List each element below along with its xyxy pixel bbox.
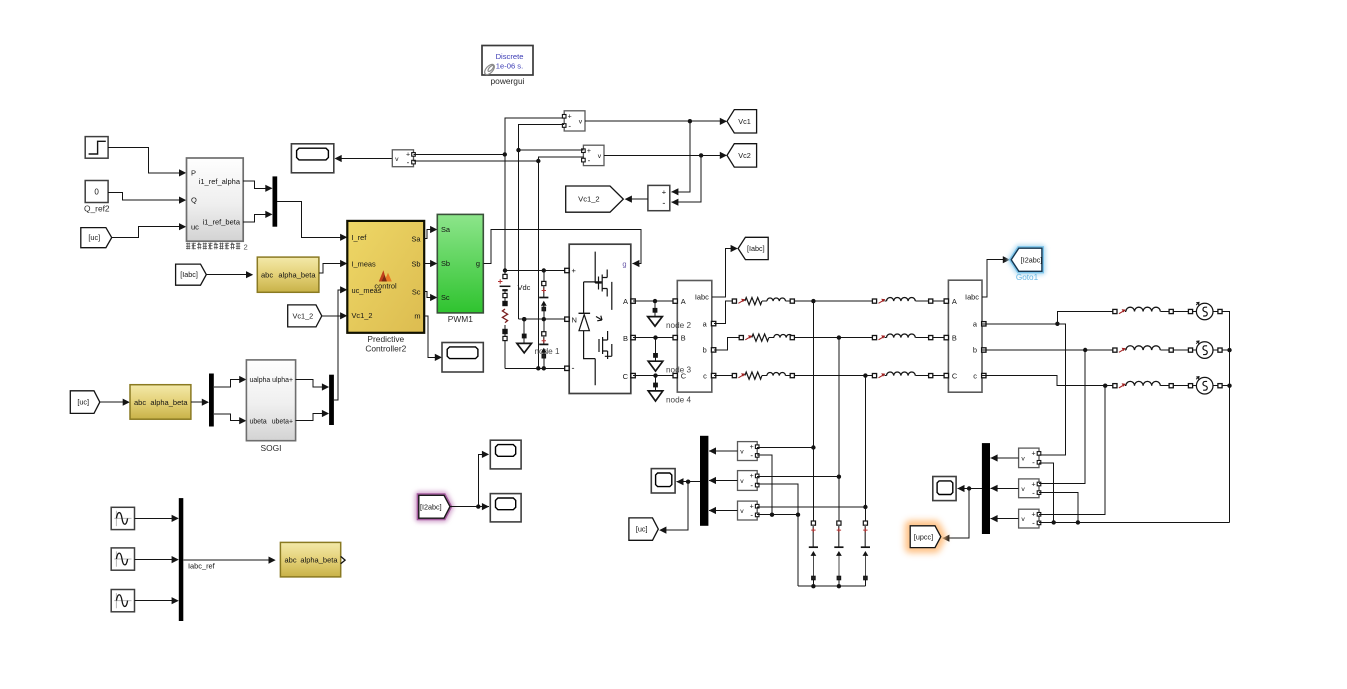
capacitor C1 xyxy=(539,271,548,320)
wire RL1a->L2a xyxy=(794,299,872,303)
svg-text:Sa: Sa xyxy=(441,225,451,234)
wire VI2 a->grid xyxy=(982,312,1113,452)
svg-text:Controller2: Controller2 xyxy=(365,344,406,354)
wire L3b->source xyxy=(1173,349,1188,351)
wire VMc+ xyxy=(757,506,865,508)
svg-text:[I2abc]: [I2abc] xyxy=(420,502,442,511)
wire VM2a- xyxy=(1039,463,1056,525)
goto tag [uc] xyxy=(629,518,658,540)
svg-text:-: - xyxy=(407,158,410,167)
svg-text:[I2abc]: [I2abc] xyxy=(1021,255,1043,264)
block Step xyxy=(85,137,108,159)
svg-text:Discrete: Discrete xyxy=(496,52,524,61)
svg-text:Q_ref2: Q_ref2 xyxy=(84,204,110,214)
wire Vc1 signal xyxy=(585,118,727,125)
svg-text:P: P xyxy=(191,169,196,178)
sine wave source 2 xyxy=(111,548,134,570)
wire VMa+ xyxy=(757,447,813,449)
svg-text:node 4: node 4 xyxy=(666,396,691,405)
from tag [I2abc] (highlighted) xyxy=(419,495,450,518)
wire VMc- xyxy=(757,514,798,516)
wire Mux_upcc->Scope/[upcc] xyxy=(942,485,982,542)
svg-text:[uc]: [uc] xyxy=(636,525,648,534)
three-phase VI measurement 1 xyxy=(673,281,716,393)
wire DC- rail xyxy=(505,366,567,370)
goto tag [Iabc] xyxy=(738,237,768,259)
wire VM_Vc2- down line C xyxy=(538,157,583,368)
svg-text:v: v xyxy=(1021,516,1025,523)
voltage measurement VM2b xyxy=(1019,479,1041,498)
label node 3 xyxy=(666,366,691,375)
wire Mux_uc->Scope/[uc] xyxy=(659,478,700,534)
dc source Vdc xyxy=(498,271,531,369)
goto tag [upcc] (highlighted) xyxy=(910,526,941,548)
capacitor Cc xyxy=(861,521,870,586)
svg-text:i1_ref_beta: i1_ref_beta xyxy=(202,218,240,227)
wire Demux->ualpha xyxy=(214,376,247,387)
wire L2b->VI2 B xyxy=(933,337,946,339)
svg-text:B: B xyxy=(952,333,957,342)
inductor L3a xyxy=(1113,307,1173,314)
wire bridge C->VI1 C xyxy=(633,375,675,377)
wire i1_ref_alpha->Mux1 xyxy=(243,181,272,192)
goto tag Vc2 xyxy=(727,144,757,167)
wire VI1 c->RL1c xyxy=(714,375,733,377)
wire VMc->Mux_uc xyxy=(709,507,738,514)
wire sine3->Mux4 xyxy=(135,597,179,604)
svg-text:SOGI: SOGI xyxy=(261,443,282,453)
svg-text:v: v xyxy=(579,119,583,126)
svg-text:control: control xyxy=(374,282,397,291)
ground node 1 xyxy=(517,317,532,353)
svg-text:Vc1_2: Vc1_2 xyxy=(578,195,600,204)
svg-text:v: v xyxy=(395,156,399,163)
voltage measurement VM_Vc1 xyxy=(562,111,585,131)
label node 2 xyxy=(666,321,691,330)
wire VM2c->Mux_upcc xyxy=(990,515,1018,522)
AC source Vc xyxy=(1188,377,1222,394)
svg-text:ubeta+: ubeta+ xyxy=(272,418,293,425)
wire VM2c+ xyxy=(1039,510,1105,514)
wire VM_Vc2+ join line B xyxy=(519,149,584,151)
wire VM_Vc1- down line B xyxy=(516,125,564,320)
demux Demux_uc xyxy=(209,374,214,427)
svg-text:alpha_beta: alpha_beta xyxy=(150,398,188,407)
wire VM_Vdc->Scope1 xyxy=(335,155,393,162)
wire VI2 Iabc->[I2abc] xyxy=(982,256,1010,297)
goto tag [I2abc] Goto1 (highlighted) xyxy=(1011,248,1042,282)
wire ulpha+->Mux3 xyxy=(296,380,330,391)
svg-text:Vc1_2: Vc1_2 xyxy=(352,311,373,320)
svg-text:+: + xyxy=(750,504,754,511)
wire L2a->VI2 A xyxy=(933,300,946,302)
voltage measurement VM_Vc2 xyxy=(582,145,604,165)
wire VMa- xyxy=(757,455,774,517)
wire VMb+ xyxy=(757,476,839,478)
wire Iabc_ref->abc3 xyxy=(183,557,275,571)
svg-text:A: A xyxy=(681,297,686,306)
caption subsystem (chinese) xyxy=(186,242,248,251)
wire RL1b->L2b xyxy=(794,335,872,339)
svg-text:v: v xyxy=(740,449,744,456)
wire Vc2->Sum1- xyxy=(671,155,701,205)
svg-text:[uc]: [uc] xyxy=(88,233,100,242)
block PWM1 xyxy=(437,214,483,323)
inductor L2b xyxy=(872,334,932,340)
svg-text:Sb: Sb xyxy=(441,259,450,268)
block SOGI xyxy=(246,360,295,453)
inductor L3b xyxy=(1113,346,1173,353)
voltage measurement VM2c xyxy=(1019,509,1041,528)
svg-text:[uc]: [uc] xyxy=(77,398,89,407)
svg-text:c: c xyxy=(703,371,707,380)
from tag [uc] xyxy=(81,228,112,248)
capacitor C2 xyxy=(539,319,548,368)
svg-text:2: 2 xyxy=(244,242,248,251)
wire SOGI mux->uc_meas xyxy=(334,286,347,400)
svg-text:m: m xyxy=(414,312,420,321)
svg-text:C: C xyxy=(952,371,958,380)
wire Q_ref2->Q xyxy=(108,192,186,203)
svg-text:-: - xyxy=(1032,458,1035,467)
inductor L3c xyxy=(1113,381,1173,388)
svg-text:Sa: Sa xyxy=(411,235,421,244)
capacitor Ca xyxy=(809,521,818,586)
svg-text:b: b xyxy=(973,346,977,355)
mux Mux_uc xyxy=(700,436,708,526)
svg-text:Goto1: Goto1 xyxy=(1016,273,1039,282)
svg-text:-: - xyxy=(588,156,591,165)
sine wave source 1 xyxy=(111,507,134,529)
mux Mux_upcc xyxy=(982,443,990,534)
svg-text:abc: abc xyxy=(285,556,297,565)
svg-text:-: - xyxy=(750,511,753,520)
RL branch phase c (R1c,L1c) xyxy=(732,372,794,379)
wire Sb xyxy=(424,260,437,267)
scope Scope_upcc xyxy=(933,477,956,501)
scope Scope1 xyxy=(291,144,333,173)
wire Demux->ubeta xyxy=(214,414,247,425)
inductor L2c xyxy=(872,372,932,378)
capacitor Cb xyxy=(834,521,843,586)
voltage measurement VMc xyxy=(738,501,760,520)
wire VMb->Mux_uc xyxy=(709,477,738,484)
goto tag Vc1_2 xyxy=(566,186,624,212)
wire ubeta+->Mux3 xyxy=(296,410,330,421)
svg-text:-: - xyxy=(1032,519,1035,528)
wire [I2abc]->scopes xyxy=(450,451,489,510)
label node 1 xyxy=(535,347,560,356)
AC source Vb xyxy=(1188,341,1222,358)
wire phase c vertical xyxy=(863,376,867,521)
svg-text:-: - xyxy=(750,451,753,460)
wire [Iabc]->abc1 xyxy=(206,271,253,278)
from tag Vc1_2 xyxy=(288,305,322,327)
mux Mux3 xyxy=(329,375,334,425)
wire phase b vertical xyxy=(837,338,841,521)
svg-text:I_ref: I_ref xyxy=(352,233,368,242)
mux Mux1 xyxy=(273,176,278,226)
wire VI1 Iabc->[Iabc] xyxy=(712,245,738,297)
subsystem i1_ref calc xyxy=(187,158,244,241)
svg-text:+: + xyxy=(750,444,754,451)
svg-text:uc: uc xyxy=(191,222,199,231)
svg-text:v: v xyxy=(1021,456,1025,463)
block Predictive Controller2 xyxy=(347,221,424,354)
svg-text:Iabc: Iabc xyxy=(695,293,709,302)
wire Sc xyxy=(424,292,437,302)
wire Mux1->I_ref xyxy=(277,202,347,241)
svg-text:node 1: node 1 xyxy=(535,347,560,356)
wire sine1->Mux4 xyxy=(135,515,179,522)
voltage measurement VMb xyxy=(738,471,760,491)
sum block Sum1 xyxy=(648,185,670,210)
wire VM_Vdc- to DC- xyxy=(414,159,541,163)
scope Scope2 xyxy=(442,343,483,373)
wire VM2b- xyxy=(1039,493,1080,525)
wire Vc1->Sum1+ xyxy=(671,121,690,195)
svg-text:v: v xyxy=(598,153,602,160)
svg-text:ubeta: ubeta xyxy=(250,418,267,425)
label node 4 xyxy=(666,396,691,405)
svg-text:A: A xyxy=(952,297,957,306)
block abc_to_alphabeta 2 xyxy=(130,385,191,420)
wire VM2b->Mux_upcc xyxy=(990,485,1018,492)
wire [uc]->uc xyxy=(112,223,187,238)
wire L3a->source xyxy=(1173,311,1188,313)
svg-text:1e-06 s.: 1e-06 s. xyxy=(496,62,523,71)
wire VM_Vdc+ to DC+ xyxy=(414,152,507,156)
constant Q_ref2 xyxy=(84,181,110,214)
svg-text:g: g xyxy=(622,260,626,269)
svg-text:ualpha: ualpha xyxy=(250,377,271,384)
svg-text:Vc1_2: Vc1_2 xyxy=(293,312,314,321)
svg-text:abc: abc xyxy=(261,271,273,280)
wire VM_Vc1+ down line A xyxy=(505,118,564,271)
svg-text:Vdc: Vdc xyxy=(518,283,531,292)
svg-text:Sc: Sc xyxy=(441,293,450,302)
ground node 3 xyxy=(648,335,663,371)
wire VMb- xyxy=(757,484,800,586)
block abc_to_alphabeta 3 xyxy=(280,542,345,577)
wire VI2 c->grid xyxy=(982,376,1113,510)
svg-text:powergui: powergui xyxy=(491,76,525,86)
svg-text:+: + xyxy=(568,114,572,121)
wire [uc]->abc2 xyxy=(100,399,130,406)
wire VM2c- to bus xyxy=(1039,521,1230,523)
inductor L2a xyxy=(872,297,932,303)
svg-text:node 2: node 2 xyxy=(666,321,691,330)
svg-text:v: v xyxy=(740,508,744,515)
wire VM2b+ xyxy=(1039,480,1085,484)
svg-text:-: - xyxy=(572,363,575,373)
svg-text:Iabc: Iabc xyxy=(965,293,979,302)
wire bridge A->VI1 A xyxy=(633,300,675,302)
svg-text:v: v xyxy=(1021,486,1025,493)
svg-text:A: A xyxy=(623,297,628,306)
svg-text:-: - xyxy=(662,198,665,208)
svg-text:-: - xyxy=(568,121,571,130)
mux Mux4 xyxy=(179,498,184,621)
wire RL1c->L2c xyxy=(794,373,872,377)
wire VI2 b->grid xyxy=(982,348,1113,480)
block abc_to_alphabeta 1 xyxy=(257,257,319,292)
svg-text:+: + xyxy=(587,148,591,155)
svg-text:Sc: Sc xyxy=(412,287,421,296)
svg-text:-: - xyxy=(750,481,753,490)
bridge block (3-level) xyxy=(565,244,636,393)
RL branch phase a (R1a,L1a) xyxy=(732,298,794,305)
svg-text:Sb: Sb xyxy=(411,259,420,268)
svg-text:ulpha+: ulpha+ xyxy=(272,377,293,384)
svg-text:B: B xyxy=(623,334,628,343)
wire Sum1->Vc1_2 xyxy=(625,196,648,203)
wire g->bridge xyxy=(483,229,641,267)
svg-text:[upcc]: [upcc] xyxy=(914,532,933,541)
svg-text:Vc1: Vc1 xyxy=(738,117,751,126)
wire abc2->Demux xyxy=(191,399,209,406)
wire m->Scope2 xyxy=(424,316,442,361)
svg-text:Iabc_ref: Iabc_ref xyxy=(188,562,216,571)
wire Sa xyxy=(424,226,437,239)
wire L3c->source xyxy=(1173,385,1188,387)
wire VMa->Mux_uc xyxy=(709,447,738,454)
svg-text:+: + xyxy=(662,188,667,197)
AC source Va xyxy=(1188,302,1222,319)
svg-text:abc: abc xyxy=(134,398,146,407)
wire sine2->Mux4 xyxy=(135,556,179,563)
svg-text:[Iabc]: [Iabc] xyxy=(180,270,198,279)
svg-text:PWM1: PWM1 xyxy=(448,314,473,324)
voltage measurement VMa xyxy=(738,442,760,461)
svg-text:i1_ref_alpha: i1_ref_alpha xyxy=(199,177,241,186)
svg-text:Q: Q xyxy=(191,196,197,205)
wire VI1 a->RL1a xyxy=(714,301,733,324)
wire Vc1_2->controller xyxy=(322,312,348,319)
scope Scope_uc xyxy=(651,469,675,493)
svg-text:C: C xyxy=(623,372,629,381)
svg-text:b: b xyxy=(703,346,707,355)
wire VM2a->Mux_upcc xyxy=(990,454,1018,461)
wire DC+ rail xyxy=(503,268,567,272)
wire N rail xyxy=(519,317,567,321)
ground node 2 xyxy=(648,299,663,326)
sine wave source 3 xyxy=(111,590,134,612)
goto tag Vc1 xyxy=(727,110,757,133)
wire VM2a+ xyxy=(1039,451,1066,455)
svg-text:alpha_beta: alpha_beta xyxy=(300,556,338,565)
svg-text:I_meas: I_meas xyxy=(352,259,377,268)
svg-text:Vc2: Vc2 xyxy=(738,151,751,160)
scope Scope4 xyxy=(490,494,521,522)
svg-text:v: v xyxy=(740,478,744,485)
svg-text:+: + xyxy=(1031,481,1035,488)
wire grid bus xyxy=(1222,312,1231,523)
scope Scope3 xyxy=(490,440,521,469)
svg-text:alpha_beta: alpha_beta xyxy=(278,271,316,280)
voltage measurement VM2a xyxy=(1019,448,1041,468)
block powergui xyxy=(482,46,533,87)
voltage measurement VM_Vdc xyxy=(392,150,415,167)
wire VI1 b->RL1b xyxy=(714,338,740,350)
wire phase a vertical xyxy=(811,301,815,521)
wire Step->P xyxy=(108,148,186,177)
wire Vc2 signal xyxy=(604,152,727,159)
from tag [Iabc] xyxy=(176,264,207,285)
svg-text:0: 0 xyxy=(94,188,99,197)
svg-text:N: N xyxy=(572,315,577,324)
wire neutral rail left xyxy=(798,584,865,588)
svg-text:+: + xyxy=(750,473,754,480)
svg-text:[Iabc]: [Iabc] xyxy=(747,244,765,253)
wire bridge B->VI1 B xyxy=(633,337,675,339)
svg-text:g: g xyxy=(476,259,480,268)
ground node 4 xyxy=(648,373,663,401)
svg-text:+: + xyxy=(1031,451,1035,458)
svg-text:c: c xyxy=(973,371,977,380)
svg-text:-: - xyxy=(1032,488,1035,497)
svg-text:B: B xyxy=(681,333,686,342)
svg-text:+: + xyxy=(1031,512,1035,519)
wire L2c->VI2 C xyxy=(933,375,946,377)
wire abc1->I_meas xyxy=(319,260,347,273)
from tag [uc] 2 xyxy=(70,391,100,414)
RL branch phase b (R1b,L1b) xyxy=(739,334,794,341)
three-phase VI measurement 2 xyxy=(944,280,986,392)
svg-text:+: + xyxy=(572,266,577,275)
svg-text:node 3: node 3 xyxy=(666,366,691,375)
wire i1_ref_beta->Mux1 xyxy=(243,211,272,222)
